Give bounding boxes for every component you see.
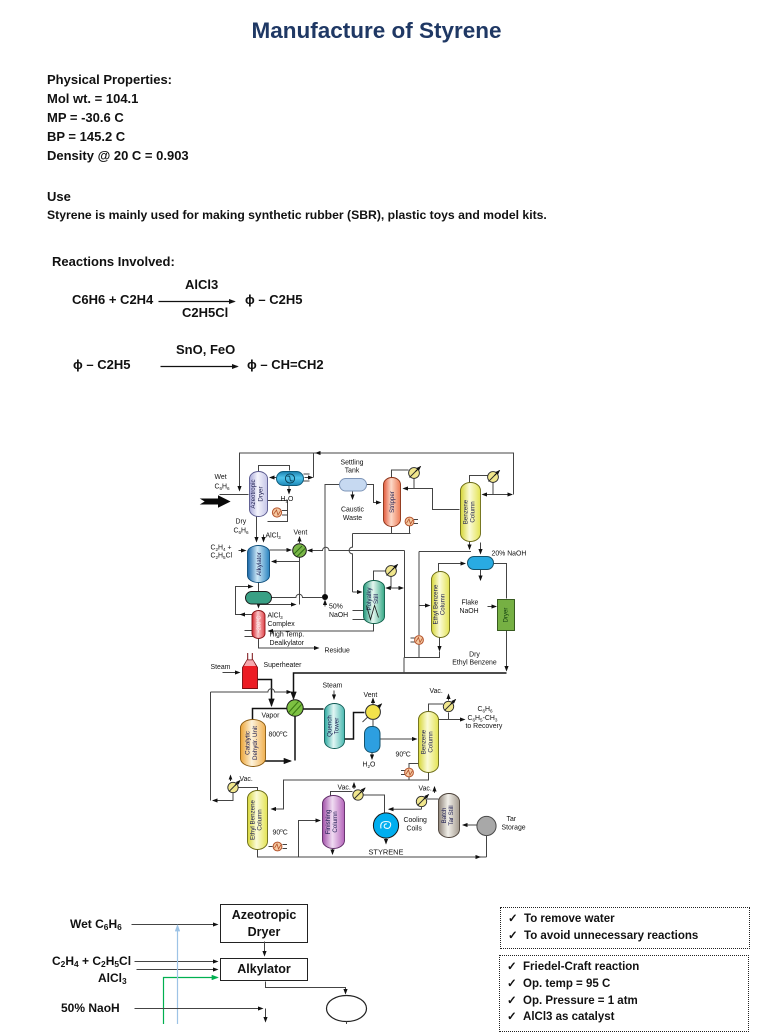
finishing condenser HX [353,788,365,800]
svg-text:Dry: Dry [236,519,247,526]
svg-text:Dryer: Dryer [504,608,510,623]
tar still vac HX [416,795,428,807]
svg-text:Vac.: Vac. [430,688,443,695]
wire: benzene column bottoms [469,542,471,550]
wire: recycle branch into condenser [313,453,315,478]
finishing column [323,796,345,849]
wire: benzene lower bottoms to EB column [272,773,429,810]
wire: benzene lower reboiler [409,764,419,781]
svg-text:Benzene: Benzene [421,729,428,754]
svg-text:Settling: Settling [341,460,364,467]
reactions heading [52,254,175,269]
wire: C2H4 feed arrow [239,550,246,552]
svg-text:Ethyl Benzene: Ethyl Benzene [433,584,440,624]
wire: benzene column overhead [470,476,494,495]
wire: quench outlet to vent drum [345,713,365,740]
wire: C2H4+C2H5Cl to alkylator [135,961,218,963]
benzene lower reboiler [405,768,414,777]
wire: long vertical to lower section [404,551,406,658]
wire: wet benzene feed [220,494,249,496]
condenser drum [277,472,304,486]
svg-text:Vac.: Vac. [338,785,351,792]
wire: alkylator bottoms to settler [258,583,260,592]
wire: vent drum to water pot [372,720,374,727]
svg-text:Column: Column [257,809,264,831]
wire: benzene column lower overhead [429,704,449,720]
svg-text:AlCl3: AlCl3 [266,533,282,541]
wire: polyalky bottoms to dealkylator [269,624,374,632]
checklist box 1 [500,907,750,949]
wire: EB lower bottoms header [258,850,487,858]
svg-text:C2H5Cl: C2H5Cl [211,553,233,561]
stripper column [384,478,401,527]
svg-text:900C: 900C [396,750,411,759]
wire: caustic wash line to vent valve [315,547,405,550]
svg-text:C6H6: C6H6 [478,706,494,714]
cooling coils drum [373,813,398,838]
wire: wet C6H6 to dryer box [132,924,218,926]
wire: styrene product out [385,839,387,844]
svg-text:Column: Column [440,593,447,615]
EB lower reboiler [273,842,282,851]
catalytic dehydrogenation unit [241,720,266,767]
wire: vent arrow [299,537,301,543]
wire: water pot to benzene column lower [380,738,417,740]
svg-text:Vac.: Vac. [240,776,253,783]
wire: tar storage to still [463,824,477,826]
wire: stripper bottoms header [353,526,411,534]
wire: dryer reboiler loop [268,501,288,522]
superheater furnace [243,653,258,689]
feed-effluent mixer [287,700,303,716]
wire: AlCl3 feed arrow [263,535,265,542]
wire: benzene recycle top line [240,453,514,495]
reaction 1 [72,292,153,307]
svg-text:Finishing: Finishing [325,809,332,834]
tar storage tank [477,816,496,835]
svg-text:Superheater: Superheater [264,662,303,669]
wire: EB recycle from lower column [219,793,234,801]
wire: dryer box to alkylator box [264,942,266,956]
svg-text:Caustic: Caustic [341,507,365,514]
wire: stripper overhead to benzene column [414,489,460,510]
reaction 1 arrow [159,301,235,303]
wire: reactor outlet [253,760,291,762]
svg-text:Azeotropic: Azeotropic [250,479,257,508]
wire: recycle into alkylator side [272,561,300,563]
wire: stripper overhead [392,470,409,478]
svg-text:Complex: Complex [268,621,296,628]
batch tar still [439,794,460,838]
svg-text:Coils: Coils [407,826,423,833]
polyalky still [364,581,385,624]
wire: steam to superheater [223,672,240,674]
svg-text:Steam: Steam [323,683,343,690]
svg-text:C2H4 +: C2H4 + [211,545,232,553]
svg-text:Tank: Tank [345,468,360,475]
benzene column upper [461,483,481,542]
svg-text:Dehydr. Unit: Dehydr. Unit [252,726,259,760]
title [0,18,753,44]
caustic mixer drum [468,557,494,570]
svg-text:Vac.: Vac. [419,786,432,793]
svg-text:Steam: Steam [211,664,231,671]
wire: superheater outlet [258,680,272,701]
svg-text:8000C: 8000C [269,730,288,739]
quench tower [325,704,345,749]
wire: vent drum up arrow [372,699,374,705]
wire: flake NaOH arrow [488,606,497,608]
svg-text:NaOH: NaOH [460,608,479,615]
wire: settling tank to stripper [367,485,381,503]
wire: mixer bottom riser [294,717,296,761]
wire: polyalky overhead [374,571,392,588]
polyalky condenser HX [386,565,398,577]
svg-text:Column: Column [332,811,339,833]
stripper reboiler [405,517,418,526]
svg-text:to Recovery: to Recovery [466,723,503,730]
svg-text:Column: Column [428,731,435,753]
wire: EB column overhead to mixer [439,564,466,572]
svg-text:Vapor: Vapor [262,713,281,720]
wire: caustic mixer to dryer unit [494,564,507,599]
svg-text:Quench: Quench [327,715,334,737]
physical properties block [47,70,189,165]
wire: condenser reflux to dryer [270,477,277,479]
svg-text:Wet: Wet [215,474,227,481]
wire: down from NaOH junction [265,1009,267,1022]
wire: alkylator overhead to vent valve [270,549,292,551]
svg-text:AlCl3: AlCl3 [268,613,284,621]
svg-text:Tower: Tower [334,718,341,735]
svg-text:NaOH: NaOH [329,612,348,619]
svg-text:Vent: Vent [364,692,378,699]
svg-text:Cooling: Cooling [404,817,428,824]
wire: alkylator out to ellipse [266,982,346,994]
wire: NaOH node to settling tank [325,485,340,595]
svg-text:H2O: H2O [281,496,295,504]
svg-text:Vent: Vent [294,530,308,537]
svg-text:C6H5-CH3: C6H5-CH3 [468,715,498,723]
wire: water out [371,753,373,760]
svg-text:Catalytic: Catalytic [245,731,252,755]
vent drum [366,705,381,720]
wire: 20% NaOH inlet [480,543,482,554]
wire: ellipse bottom [346,1022,348,1025]
checklist box 2 [499,955,749,1032]
use block [47,189,71,204]
wire: tar still overhead [422,799,439,809]
wire: vent drum diagonal [363,704,382,722]
high temp dealkylator column [252,611,265,639]
svg-text:Column: Column [470,501,477,523]
wire: EB lower overhead [239,788,258,791]
node: wet feed block arrow [202,496,230,507]
benzene lower condenser HX [443,700,455,712]
wire: tar still vac arrow [434,787,436,793]
wire: EB column feed riser [418,552,420,636]
benzene column condenser HX [488,471,500,483]
wire: finishing column overhead [331,792,353,796]
EB column reboiler [415,636,424,645]
svg-text:20% NaOH: 20% NaOH [492,551,527,558]
flake NaOH dryer [498,600,515,631]
svg-text:900C: 900C [273,828,288,837]
wire: residue line [259,638,319,649]
svg-text:Still: Still [373,594,380,604]
svg-text:Waste: Waste [343,515,362,522]
separator ellipse [327,996,367,1022]
wire: dry ethyl benzene header [294,673,507,698]
wire: EB lower reboiler link [269,846,273,848]
svg-text:Storage: Storage [502,825,526,832]
azeotropic dryer column [250,472,268,517]
svg-text:Dry: Dry [469,652,480,659]
wire: dryer bottoms to alkylator [256,517,258,542]
reaction 2 arrow [161,366,238,368]
wire: EB recycle header [211,689,286,692]
wire: caustic waste out [352,491,354,500]
svg-text:Batch: Batch [441,807,448,823]
ethyl benzene column lower [248,791,268,850]
wire: finishing column vac arrow [353,783,355,789]
wire: dryer overhead to condenser [259,466,290,472]
svg-text:Residue: Residue [325,648,350,655]
wire: condenser water out [288,486,290,494]
svg-text:High Temp.: High Temp. [270,632,305,639]
wire: complex recycle loop [236,587,254,615]
block diagram: feed labels [70,917,122,931]
wire: polyalky steam flanges [353,610,365,612]
block diagram: alkylator box [220,958,308,981]
settler drum [246,592,272,605]
wire: stripper bottoms down to polyalky [349,534,352,593]
EB lower condenser HX [228,776,240,793]
wire: caustic mixer bottoms [480,570,482,581]
dryer reboiler [272,508,281,517]
50% NaOH node [322,594,328,600]
benzene column lower [419,712,439,773]
svg-text:C6H6: C6H6 [234,528,250,536]
vent valve [293,544,307,558]
alkylator column [248,546,270,583]
svg-text:Benzene: Benzene [463,499,470,524]
wire: mixer to reactor feed line [253,709,288,720]
svg-text:C6H6: C6H6 [215,484,231,492]
svg-text:STYRENE: STYRENE [369,848,404,857]
wire: steam to quench [333,691,335,700]
svg-text:Ethyl Benzene: Ethyl Benzene [452,660,497,667]
wire: blue recycle line [177,926,179,1025]
stripper condenser HX [409,467,421,479]
wire: vent valve bottom line [299,558,301,605]
svg-text:H2O: H2O [363,762,377,770]
svg-text:Alkylator: Alkylator [256,552,263,576]
wire: dryer unit outlet [506,631,508,671]
block diagram: azeotropic dryer box [220,904,308,943]
wire: dealkylator flanges [245,630,254,632]
wire: settler to NaOH node [272,594,323,597]
wire: 50% NaoH line [135,1008,263,1010]
svg-text:Tar: Tar [507,816,517,823]
svg-text:50%: 50% [329,604,343,611]
svg-text:Dryer: Dryer [258,486,265,501]
settling tank [340,479,367,492]
svg-text:Tar Still: Tar Still [448,805,455,825]
water knockout pot [365,727,381,753]
svg-text:~200°C: ~200°C [257,616,263,633]
svg-text:Flake: Flake [462,600,479,607]
wire: settler branch line [259,604,296,606]
wire: settler bottoms to dealkylator [258,604,260,608]
wire: green AlCl3 line [164,978,218,1025]
wire: mixer to quench tower [303,708,324,710]
wire: second feed line to alkylator [137,969,218,971]
wire: stripper condenser return [413,479,415,489]
wire: 50% NaOH inlet arrow [324,601,326,607]
svg-text:Ethyl Benzene: Ethyl Benzene [250,799,257,839]
svg-text:Stripper: Stripper [389,491,396,513]
svg-text:Dealkylator: Dealkylator [270,640,305,647]
wire: EB column bottoms [439,638,441,651]
ethyl benzene column upper [432,572,450,638]
reaction 2 [73,357,130,372]
